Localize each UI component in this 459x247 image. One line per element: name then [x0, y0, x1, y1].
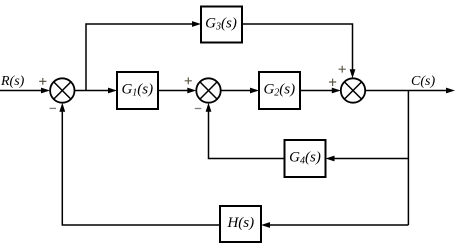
svg-text:G2(s): G2(s) [263, 82, 295, 99]
svg-text:R(s): R(s) [0, 74, 25, 89]
svg-text:H(s): H(s) [226, 215, 254, 231]
svg-text:G3(s): G3(s) [205, 16, 237, 33]
svg-text:C(s): C(s) [411, 74, 435, 89]
svg-text:G1(s): G1(s) [121, 82, 153, 99]
svg-text:G4(s): G4(s) [289, 150, 321, 167]
